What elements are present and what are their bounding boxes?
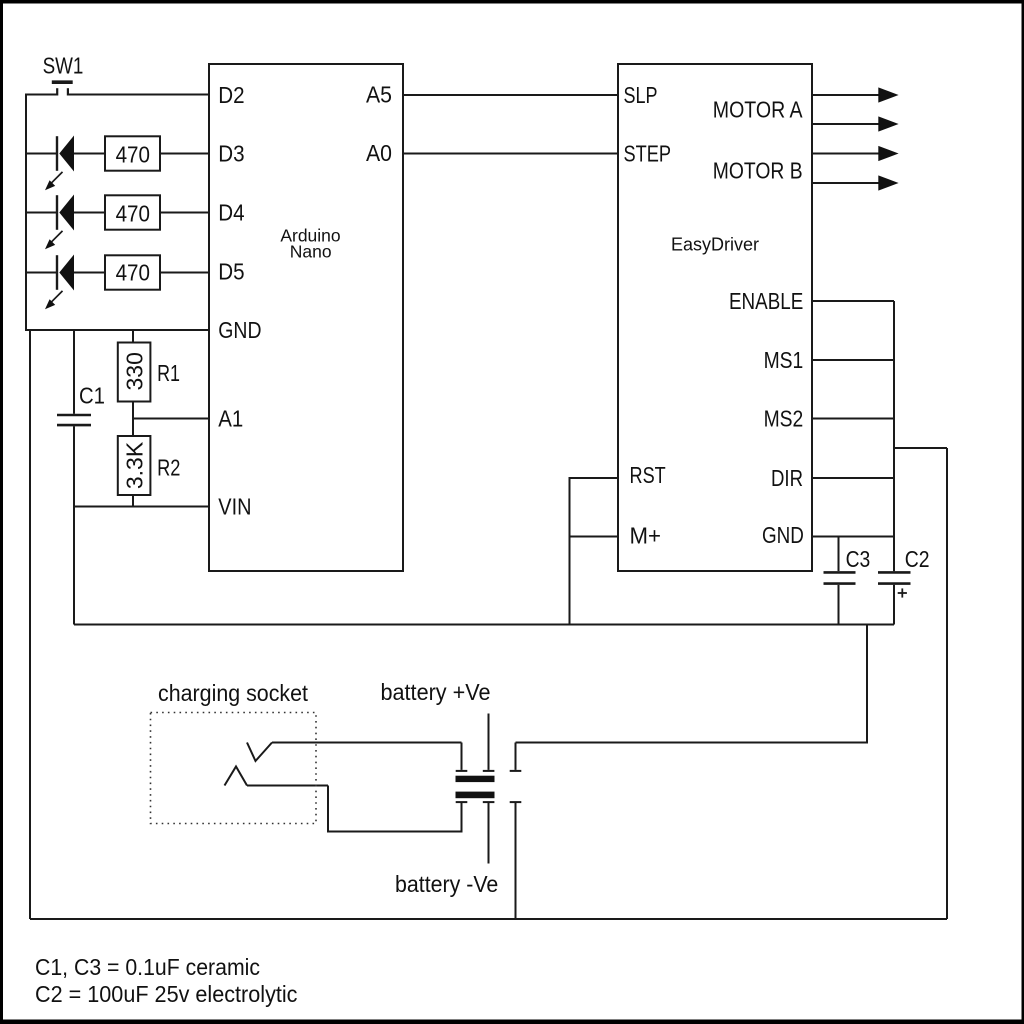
wire: bottom ground bus	[30, 918, 947, 920]
switch SW1	[52, 82, 73, 95]
resistor 470 (row 3) box	[105, 255, 160, 289]
svg-text:GND: GND	[762, 522, 804, 548]
jack upper contact (tip, with break)	[247, 743, 272, 762]
wire: GND to C1 top	[73, 330, 75, 414]
wire: A0 to STEP	[403, 153, 618, 155]
svg-text:Nano: Nano	[290, 242, 332, 262]
wire: A5 to SLP	[403, 94, 618, 96]
svg-text:R2: R2	[157, 455, 180, 481]
svg-text:470: 470	[116, 260, 150, 286]
battery connector contact bar 1	[456, 776, 495, 782]
LED D3 symbol	[45, 136, 74, 191]
svg-text:A5: A5	[366, 82, 392, 108]
svg-text:SW1: SW1	[43, 53, 84, 79]
svg-text:C3: C3	[846, 546, 871, 572]
svg-text:R1: R1	[157, 360, 180, 386]
wire: GND to R1 top	[132, 330, 134, 343]
capacitor C3	[824, 537, 856, 625]
connector pin: bottom left	[456, 801, 468, 803]
motor output arrow 4	[812, 175, 899, 190]
wire: right bus vertical	[893, 301, 895, 571]
connector pin: bottom right to ground bus	[510, 801, 522, 803]
svg-text:A1: A1	[218, 406, 243, 432]
wire: MS1 to bus	[812, 359, 894, 361]
svg-text:3.3K: 3.3K	[121, 441, 147, 489]
wire: bottom left pin to jack sleeve	[328, 786, 462, 832]
wire: VIN wire	[74, 506, 209, 508]
motor output arrow 1	[812, 87, 899, 102]
svg-text:EasyDriver: EasyDriver	[671, 235, 759, 255]
capacitor C1	[57, 415, 91, 425]
wire: battery -Ve lead	[488, 803, 490, 864]
jack lower contact (sleeve)	[225, 767, 248, 786]
svg-text:STEP: STEP	[624, 141, 672, 167]
resistor 470 (row 2) box	[105, 195, 160, 229]
connector pin: battery -	[483, 801, 495, 803]
wire: switch to Arduino D2	[68, 94, 209, 96]
wire: battery feed from return bus	[516, 625, 868, 743]
wire: right ground riser	[946, 448, 948, 919]
wire: bus below C2 to return bus	[893, 585, 895, 625]
svg-text:C1: C1	[79, 383, 105, 409]
wire: battery +Ve lead	[488, 714, 490, 770]
resistor 470 (row 1) box	[105, 136, 160, 170]
svg-text:ENABLE: ENABLE	[729, 288, 803, 314]
resistor R1 box	[118, 343, 151, 402]
wire: rail to LED1	[26, 153, 56, 155]
wire: EasyDriver GND to bus	[812, 536, 894, 538]
charging socket dashed enclosure	[151, 713, 317, 824]
svg-text:M+: M+	[630, 523, 662, 549]
LED D4 symbol	[45, 195, 74, 250]
wire: R2 bottom to VIN	[132, 495, 134, 507]
svg-text:VIN: VIN	[218, 494, 251, 520]
wire: resistor to Arduino pin	[160, 212, 209, 214]
wire: DIR to bus	[812, 477, 894, 479]
wire: ENABLE to bus	[812, 300, 894, 302]
wire: jack tip contact to battery +	[272, 742, 462, 744]
svg-text:D4: D4	[218, 200, 244, 226]
motor output arrow 2	[812, 116, 899, 131]
svg-text:charging socket: charging socket	[158, 680, 309, 706]
svg-text:330: 330	[121, 352, 147, 390]
svg-text:DIR: DIR	[771, 465, 803, 491]
wire: LED1 to resistor	[74, 153, 105, 155]
svg-text:D2: D2	[218, 82, 244, 108]
svg-text:battery +Ve: battery +Ve	[381, 679, 491, 705]
wire: resistor to Arduino pin	[160, 153, 209, 155]
svg-text:RST: RST	[630, 462, 666, 488]
resistor R2 box	[118, 436, 151, 495]
connector pin: jack side top left	[461, 743, 463, 770]
svg-text:MS1: MS1	[764, 347, 804, 373]
capacitor C2 (electrolytic)	[878, 572, 911, 597]
wire: R1 bottom to R2 top	[132, 402, 134, 437]
wire: A1 wire	[133, 418, 209, 420]
svg-text:MS2: MS2	[764, 406, 804, 432]
wire: power return bus	[74, 624, 894, 626]
connector pin: battery +	[483, 770, 495, 772]
IC U2 EasyDriver box	[618, 64, 812, 571]
svg-text:MOTOR B: MOTOR B	[713, 158, 803, 184]
wire: resistor to Arduino pin	[160, 272, 209, 274]
wire: jack sleeve contact wire	[247, 785, 328, 787]
wire: LED3 to resistor	[74, 272, 105, 274]
wire: LED2 to resistor	[74, 212, 105, 214]
svg-text:D3: D3	[218, 141, 244, 167]
svg-text:470: 470	[116, 142, 150, 168]
wire: ground branch to right bus	[894, 447, 947, 449]
IC U1 Arduino Nano box	[209, 64, 403, 571]
svg-text:MOTOR A: MOTOR A	[713, 97, 803, 123]
connector pin: battery feed top right	[515, 743, 517, 770]
wire: ground drop from rail	[29, 330, 31, 919]
wire: LED cathode rail / GND net horizontal	[25, 329, 209, 331]
svg-text:A0: A0	[366, 140, 392, 166]
svg-text:GND: GND	[218, 317, 261, 343]
wire: switch to left rail and LED anode rail	[26, 95, 57, 331]
svg-text:SLP: SLP	[624, 82, 658, 108]
LED D5 symbol	[45, 255, 74, 310]
wire: rail to LED3	[26, 272, 56, 274]
svg-text:D5: D5	[218, 259, 244, 285]
battery connector contact bar 2	[456, 792, 495, 799]
wire: C1 bottom through VIN to return bus	[73, 426, 75, 624]
wire: M+ stub	[570, 536, 619, 538]
wire: MS2 to bus	[812, 418, 894, 420]
svg-text:C2: C2	[905, 546, 930, 572]
wire: RST stub and drop	[570, 478, 619, 625]
wire: rail to LED2	[26, 212, 56, 214]
svg-text:C2 = 100uF 25v electrolytic: C2 = 100uF 25v electrolytic	[35, 981, 298, 1007]
svg-text:C1, C3 = 0.1uF ceramic: C1, C3 = 0.1uF ceramic	[35, 954, 260, 980]
svg-text:470: 470	[116, 201, 150, 227]
svg-text:battery -Ve: battery -Ve	[395, 871, 498, 897]
motor output arrow 3	[812, 146, 899, 161]
